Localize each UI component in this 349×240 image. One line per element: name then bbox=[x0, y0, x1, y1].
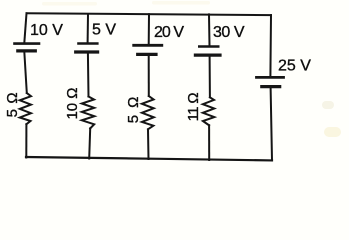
svg-text:5 V: 5 V bbox=[92, 22, 116, 39]
svg-text:25 V: 25 V bbox=[278, 57, 311, 74]
svg-text:5 Ω: 5 Ω bbox=[4, 92, 21, 117]
svg-text:11 Ω: 11 Ω bbox=[185, 92, 202, 121]
svg-text:5 Ω: 5 Ω bbox=[125, 97, 142, 124]
svg-text:20 V: 20 V bbox=[154, 24, 184, 41]
svg-text:10 V: 10 V bbox=[30, 22, 63, 39]
svg-text:10 Ω: 10 Ω bbox=[64, 88, 81, 120]
svg-text:30 V: 30 V bbox=[213, 24, 245, 41]
